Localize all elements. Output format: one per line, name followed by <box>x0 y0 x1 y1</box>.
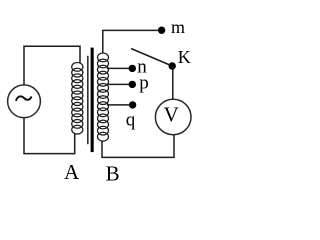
tap n wire <box>107 67 133 69</box>
tap q wire <box>107 104 133 106</box>
switch K arm <box>131 49 172 67</box>
AC source circle <box>8 85 41 118</box>
terminal m dot <box>158 27 165 34</box>
transformer core thick bar <box>91 48 94 153</box>
tap n dot <box>129 65 136 72</box>
wire coil B top to terminal m <box>103 30 161 53</box>
transformer core thin bar <box>87 56 88 144</box>
tap p dot <box>129 81 136 88</box>
svg-text:q: q <box>126 110 136 131</box>
wire K to voltmeter <box>172 66 174 99</box>
primary coil A <box>72 63 83 135</box>
secondary coil B <box>98 53 109 141</box>
wire voltmeter to coil B bottom <box>102 135 174 158</box>
tap q dot <box>129 101 136 108</box>
primary circuit top wire <box>24 46 80 85</box>
svg-text:A: A <box>64 160 80 184</box>
svg-text:K: K <box>178 47 191 67</box>
voltmeter circle <box>155 99 191 135</box>
svg-text:p: p <box>139 73 149 94</box>
svg-text:B: B <box>106 162 120 186</box>
svg-text:m: m <box>171 17 185 37</box>
svg-text:V: V <box>164 102 179 126</box>
tap p wire <box>107 83 133 85</box>
AC tilde symbol <box>16 96 31 100</box>
switch K pivot dot <box>169 62 176 69</box>
primary circuit bottom wire <box>24 118 75 154</box>
